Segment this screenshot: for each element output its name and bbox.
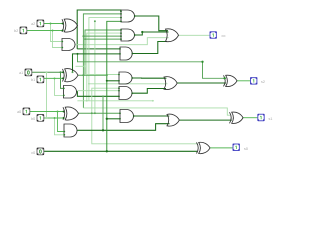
svg-text:s1: s1 bbox=[269, 117, 273, 121]
node s2 feed dot1 bbox=[201, 61, 203, 63]
port dot bbox=[118, 87, 120, 89]
node y100.8 end bbox=[152, 100, 154, 102]
and-gate A1 bbox=[121, 10, 135, 22]
port dot bbox=[120, 35, 122, 37]
svg-text:s2: s2 bbox=[261, 80, 265, 84]
node riser x46.5 top bbox=[46, 71, 48, 73]
node c0 riser A4 tap bbox=[106, 80, 108, 82]
wire g1 out to A5 in4 bbox=[76, 92, 119, 97]
wire c0 riser to A1 in4 bbox=[107, 21, 121, 151]
wire p2 out stub bbox=[76, 25, 78, 27]
wire c0 branch to A6 in2 bbox=[107, 118, 120, 120]
node riser x46.5 bottom bbox=[46, 117, 48, 119]
wire c0 riser to A4 in2 bbox=[107, 80, 119, 82]
wire A2 out to OR c3 in2 bbox=[135, 32, 169, 35]
port dot bbox=[119, 118, 121, 120]
wire pale y100.8 bbox=[77, 100, 152, 102]
input pin b0 bbox=[37, 115, 44, 122]
wire p2 riser to A1 in1 bbox=[77, 10, 121, 49]
port dot bbox=[119, 53, 121, 55]
wire p1 riser x83.4 to A1 in2 bbox=[83, 14, 121, 108]
svg-text:a0: a0 bbox=[17, 110, 21, 114]
port dot out bbox=[131, 77, 133, 79]
node A2 out junction bbox=[141, 31, 143, 33]
input pin a2 bbox=[37, 20, 44, 27]
wire s1 out bbox=[243, 117, 258, 119]
port dot p0 in1 bbox=[63, 111, 65, 113]
port dot g0 in2 bbox=[63, 134, 65, 136]
port dot g2 in2 bbox=[61, 47, 63, 49]
or-gate c2 bbox=[164, 77, 177, 90]
wire b1 bbox=[44, 77, 63, 79]
port dot bbox=[120, 38, 122, 40]
port dot g0 in1 bbox=[63, 131, 65, 133]
port dot out bbox=[134, 34, 136, 36]
and-gate g2 bbox=[62, 39, 75, 51]
wire A4 out to OR c2 in1 bbox=[133, 77, 167, 79]
svg-text:b1: b1 bbox=[31, 78, 35, 82]
node p1 riser junction bbox=[82, 74, 84, 76]
wire riser x94.9 bbox=[94, 21, 96, 113]
port dot p0 in2 bbox=[63, 117, 65, 119]
xor-gate p2 bbox=[62, 19, 78, 32]
port dot bbox=[118, 80, 120, 82]
node a1 branch1 bbox=[60, 71, 62, 73]
wire g2 out to OR c3 in3 bbox=[75, 38, 169, 45]
node riser x86.8 bottom bbox=[86, 100, 88, 102]
wire to A2 in4 bbox=[85, 38, 121, 40]
or-gate c1 bbox=[167, 114, 179, 126]
xor-gate s1 bbox=[230, 112, 244, 123]
port dot p1 in1 bbox=[62, 71, 64, 73]
wire a2 bbox=[44, 23, 62, 25]
port dot bbox=[120, 10, 122, 12]
port dot g2 in1 bbox=[61, 41, 63, 43]
wire pale y66.3 bbox=[76, 65, 86, 67]
node s2 feed dot2 bbox=[223, 77, 225, 79]
wire A5 out to OR c2 in3 bbox=[133, 89, 167, 94]
wire c3 out bbox=[179, 34, 211, 36]
wire b0 to g0 in2 bbox=[55, 118, 65, 135]
node c0 riser junction bbox=[106, 150, 108, 152]
output pin s1 bbox=[258, 114, 264, 121]
port dot out bbox=[134, 15, 136, 17]
wire s2 in1 feed bbox=[78, 54, 227, 78]
port dot bbox=[118, 74, 120, 76]
wire riser x85 to A4 in1 bbox=[85, 74, 119, 76]
port dot p2 in1 bbox=[62, 23, 64, 25]
node g0 riser junction bbox=[102, 129, 104, 131]
node a1 branch2 bbox=[72, 71, 74, 73]
wire p1 out bbox=[78, 74, 107, 76]
wire p2 to A3 in1 bbox=[77, 48, 120, 50]
node g0 riser top bbox=[102, 95, 104, 97]
and-gate A5 bbox=[119, 87, 132, 100]
port dot bbox=[120, 32, 122, 34]
wire c1 out bbox=[179, 119, 232, 121]
svg-text:co: co bbox=[222, 34, 226, 38]
wire g0 out to OR c1 in2 bbox=[77, 124, 170, 131]
wire riser x88.9 to A1 in3 bbox=[89, 18, 121, 101]
wire A6 out to OR c1 in1 bbox=[134, 115, 169, 117]
and-gate A4 bbox=[119, 72, 132, 84]
port dot g1 in2 bbox=[63, 95, 65, 97]
node A2 in3 tap bbox=[82, 35, 84, 37]
xor-gate s2 bbox=[224, 75, 238, 86]
wire s2 out bbox=[237, 80, 251, 82]
xor-gate p1 bbox=[63, 69, 79, 82]
port dot p1 in2 bbox=[62, 77, 64, 79]
and-gate A6 bbox=[120, 110, 134, 123]
wire riser x86.8 to A2 in2 bbox=[87, 33, 121, 101]
node p0 riser tap bbox=[91, 112, 93, 114]
output pin s0 bbox=[233, 144, 239, 151]
port dot out bbox=[132, 53, 134, 55]
node y66.3 join bbox=[84, 65, 86, 67]
node a2 branch bbox=[50, 23, 52, 25]
input pin b2 bbox=[20, 27, 27, 34]
svg-text:a2: a2 bbox=[31, 22, 35, 26]
wire a1 riser to A3 in2 bbox=[73, 54, 121, 72]
node c0 branch A6 bbox=[106, 118, 108, 120]
svg-text:a1: a1 bbox=[19, 71, 23, 75]
node riser x94.9 top tap bbox=[94, 20, 96, 22]
node A2 in4 tap bbox=[84, 38, 86, 40]
wire g0 riser x103 bbox=[102, 96, 104, 130]
wire a0 to g0 in1 bbox=[58, 112, 65, 132]
wire A3 out to OR c3 in4 bbox=[132, 42, 167, 54]
node riser x88.9 tap c2in2 bbox=[88, 83, 90, 85]
output pin co bbox=[210, 32, 216, 39]
node riser x94.9 on p0 bbox=[94, 112, 96, 114]
wire p0 riser x91.8 to A5 in1 and s0 bbox=[92, 88, 198, 144]
and-gate g1 bbox=[64, 85, 77, 98]
port dot bbox=[120, 29, 122, 31]
port dot out bbox=[133, 115, 135, 117]
node b2 branch bbox=[52, 30, 54, 32]
port dot bbox=[120, 17, 122, 19]
port dot out bbox=[131, 92, 133, 94]
wire p0 out to A6 in1 bbox=[79, 112, 121, 114]
wire A1 out to OR c3 in1 bbox=[135, 16, 169, 31]
wire b2 bbox=[27, 30, 62, 32]
port dot bbox=[118, 95, 120, 97]
xor-gate s0 bbox=[197, 142, 211, 153]
port dot bbox=[120, 20, 122, 22]
node b1 branch bbox=[54, 77, 56, 79]
svg-text:c0: c0 bbox=[31, 151, 35, 155]
wire p1 down to s1 in1 bbox=[83, 108, 230, 115]
xor-gate p0 bbox=[63, 107, 79, 120]
and-gate A2 bbox=[121, 29, 135, 41]
svg-text:b0: b0 bbox=[31, 117, 35, 121]
output pin s2 bbox=[251, 78, 257, 85]
wire riser x88.9 to OR c2 in2 bbox=[89, 83, 168, 85]
input pin a1 bbox=[25, 69, 32, 76]
wire to A2 in3 bbox=[83, 35, 121, 37]
wire a1 bbox=[32, 71, 63, 73]
svg-text:b2: b2 bbox=[14, 29, 18, 33]
wire to A5 in2 bbox=[77, 90, 119, 92]
node s2 feed branch bbox=[77, 53, 79, 55]
port dot bbox=[119, 48, 121, 50]
port dot g1 in1 bbox=[63, 88, 65, 90]
port dot bbox=[119, 112, 121, 114]
wire a2 to g2 in1 bbox=[51, 24, 63, 42]
wire b2 to g2 in2 bbox=[53, 31, 63, 48]
wire c2 out bbox=[177, 82, 226, 84]
wire s0 out bbox=[210, 147, 233, 149]
wire b0 bbox=[44, 117, 64, 119]
wire a0 bbox=[30, 111, 64, 113]
port dot p2 in2 bbox=[62, 30, 64, 32]
and-gate g0 bbox=[64, 124, 77, 137]
wire riser x85 to A2 in1 bbox=[85, 30, 121, 75]
wire c0 long run bbox=[44, 150, 197, 152]
node b0 branch bbox=[54, 117, 56, 119]
port dot bbox=[118, 90, 120, 92]
port dot bbox=[120, 13, 122, 15]
svg-text:s0: s0 bbox=[244, 147, 248, 151]
wire a1 to g1 in1 bbox=[61, 72, 64, 88]
node p1 out junction bbox=[106, 74, 108, 76]
node a0 branch bbox=[57, 111, 59, 113]
and-gate A3 bbox=[120, 47, 132, 60]
input pin a0 bbox=[23, 108, 30, 115]
input pin b1 bbox=[37, 76, 44, 83]
wire b1 to g1 in2 bbox=[55, 78, 64, 95]
wire riser x46.5 bbox=[46, 72, 48, 118]
or-gate c3 bbox=[166, 29, 179, 42]
input pin c0 bbox=[37, 148, 44, 155]
